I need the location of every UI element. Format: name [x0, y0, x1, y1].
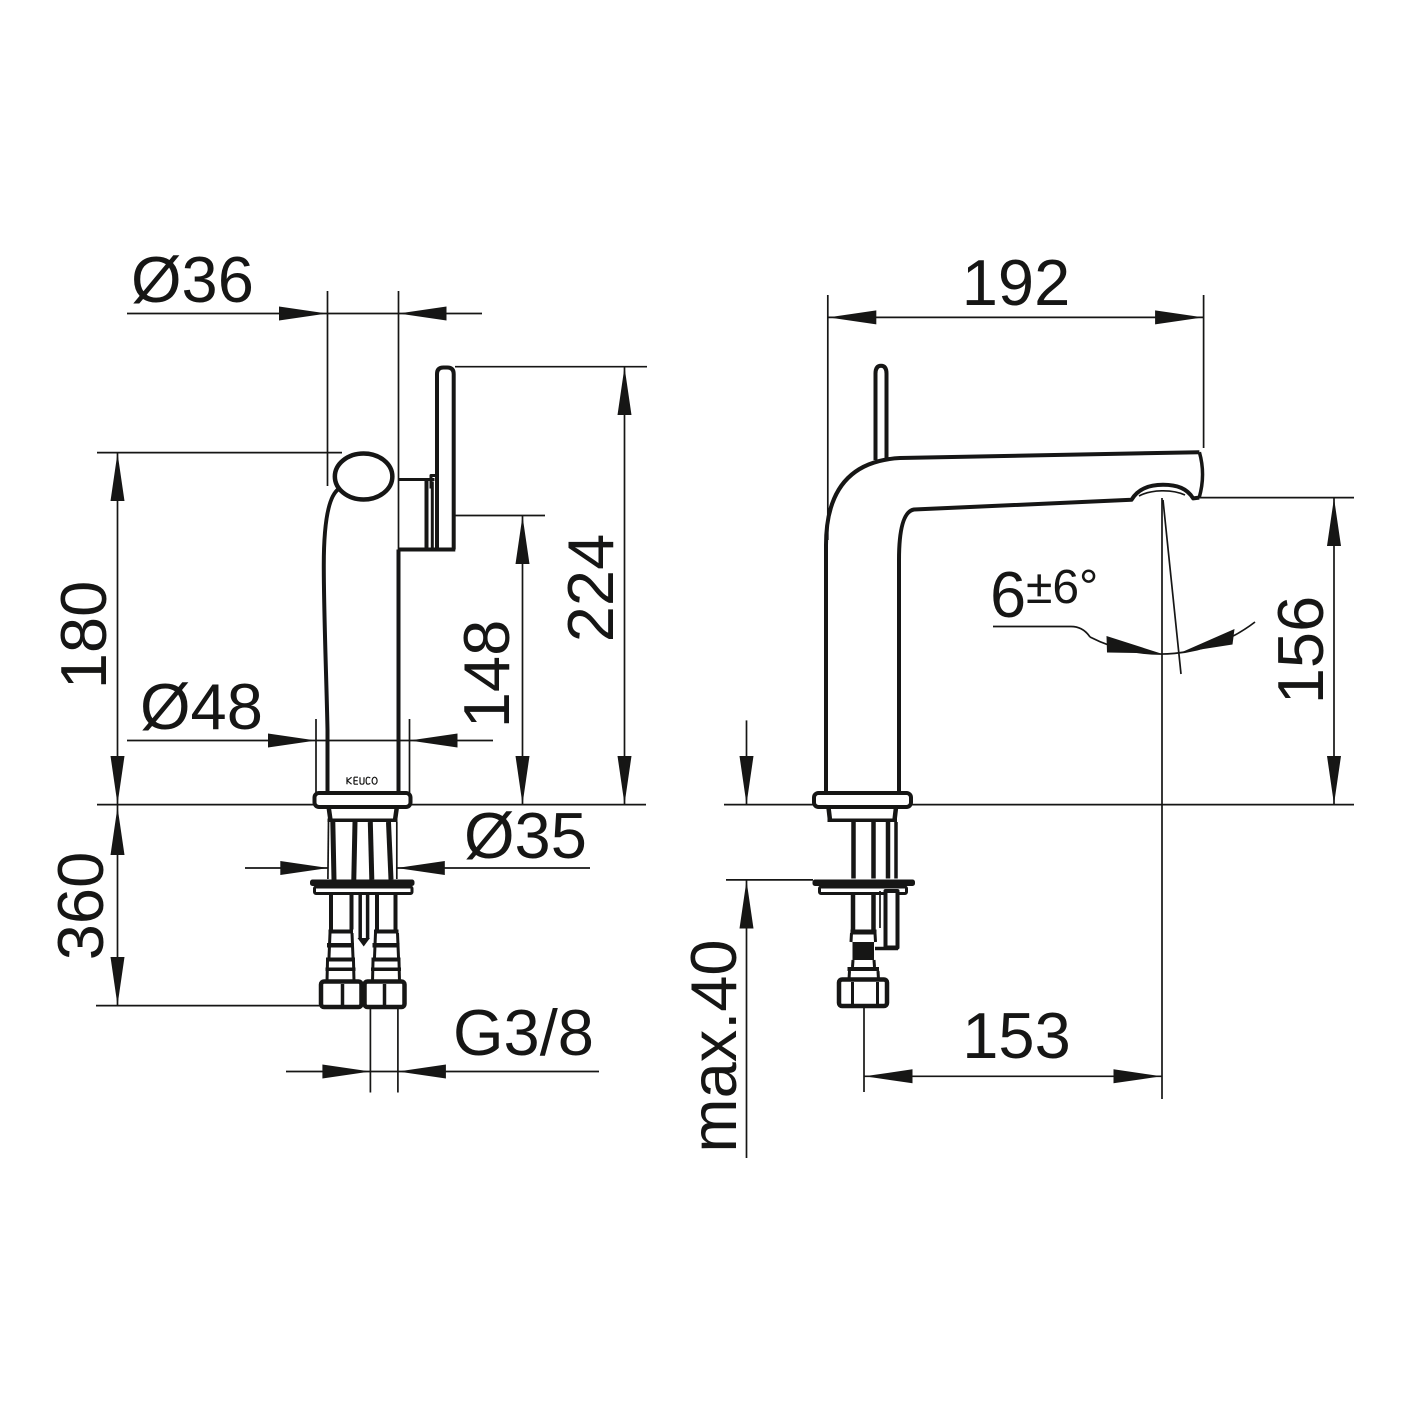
spout bottom edge and aerator — [899, 485, 1199, 794]
supply lines side — [851, 822, 856, 879]
svg-text:192: 192 — [962, 246, 1070, 319]
angle arc — [1090, 622, 1255, 654]
dim line 180-360 — [117, 453, 119, 1006]
dim line D48 — [127, 740, 493, 742]
washer plate front — [310, 880, 415, 887]
angle arrow right — [1181, 629, 1235, 653]
svg-text:Ø35: Ø35 — [464, 799, 587, 872]
arrow 360 up — [111, 807, 125, 855]
arrow 156 down — [1327, 756, 1341, 804]
arrow D35 right — [397, 861, 445, 875]
extension line D48 left — [315, 719, 317, 793]
hose crimp bands side — [848, 930, 880, 972]
svg-text:224: 224 — [554, 534, 627, 642]
hose nut front right — [365, 982, 405, 1008]
angle arrow left — [1107, 636, 1162, 654]
max40 dim line bottom — [746, 881, 748, 1159]
shaft trapezoid side — [829, 808, 897, 821]
dim line G3/8 — [286, 1071, 599, 1073]
svg-text:max.40: max.40 — [677, 939, 750, 1152]
extension line G3/8 left — [369, 1008, 371, 1093]
svg-text:148: 148 — [450, 620, 523, 728]
water stream vertical reference — [1161, 498, 1163, 1099]
dim line D36 — [127, 313, 482, 315]
dim line 156 — [1333, 498, 1335, 805]
bottom line 360 — [96, 1005, 320, 1007]
hose nut front left — [321, 982, 362, 1008]
extension line 156 top — [1195, 497, 1354, 499]
aerator inner line — [1139, 491, 1185, 496]
arrow 360 down — [111, 957, 125, 1005]
svg-text:153: 153 — [962, 999, 1070, 1072]
dim line 192 — [828, 316, 1204, 318]
flange side — [814, 793, 911, 807]
max40 tick line — [726, 879, 813, 881]
arrow 224 up — [618, 367, 632, 415]
arrow D35 left — [280, 861, 328, 875]
hose crimps front — [326, 930, 402, 972]
arrow 148 down — [516, 756, 530, 804]
leader 6deg — [993, 627, 1090, 638]
arrow 192 right — [1155, 310, 1203, 324]
svg-text:±6°: ±6° — [1026, 561, 1098, 614]
washer side — [813, 880, 916, 887]
svg-text:6: 6 — [990, 558, 1026, 631]
lever bar front — [437, 368, 454, 550]
hose below washer side — [853, 894, 874, 930]
crimp side edges front right hose — [375, 933, 399, 958]
arrow 180 down — [111, 756, 125, 804]
svg-text:Ø48: Ø48 — [140, 670, 263, 743]
hoses below washer front — [331, 894, 352, 930]
dim line 148 — [522, 516, 524, 805]
mounting surface line left view — [97, 804, 646, 806]
extension line 224 top — [455, 366, 647, 368]
lever side — [876, 366, 887, 460]
supply bundle lines front — [327, 822, 330, 879]
arrow max40 up — [740, 881, 754, 929]
extension line 153 left — [863, 1008, 865, 1092]
extension line D36 left — [327, 291, 329, 486]
arrow D36 left — [279, 307, 327, 321]
lever mount plate — [399, 478, 435, 481]
svg-text:Ø36: Ø36 — [131, 243, 254, 316]
extension line D48 right — [409, 719, 411, 793]
pivot ellipse — [335, 454, 393, 500]
extension line D36 right — [398, 291, 400, 480]
arrow 153 left — [865, 1069, 913, 1083]
dim line 153 — [864, 1075, 1162, 1077]
extension line G3/8 right — [397, 1008, 399, 1093]
extension line 192 right — [1203, 295, 1205, 448]
dim line 224 — [624, 367, 626, 805]
arrow 192 left — [828, 310, 876, 324]
arrow D48 left — [268, 734, 316, 748]
extension line 180 — [97, 452, 342, 454]
faucet body front: left edge — [324, 489, 339, 794]
rod side — [879, 891, 881, 928]
spout end cap — [1199, 452, 1202, 497]
lever notch — [431, 476, 437, 489]
svg-text:156: 156 — [1264, 596, 1337, 704]
arrow 153 right — [1114, 1069, 1162, 1083]
arrow D36 right — [399, 307, 447, 321]
shaft trapezoid front — [329, 808, 397, 821]
arrow max40 down — [740, 756, 754, 804]
crimp side edges front left hose — [329, 933, 353, 958]
spout outline side — [826, 452, 1199, 793]
arrow 224 down — [618, 756, 632, 804]
arrow 180 up — [111, 453, 125, 501]
extension line 192 left — [827, 295, 829, 540]
KEUCO logo — [347, 777, 377, 784]
arrow G3/8 left — [322, 1065, 370, 1079]
dim line D35 — [245, 867, 590, 869]
hose nut side — [839, 980, 887, 1007]
mounting surface line right view — [724, 804, 1354, 806]
svg-text:180: 180 — [47, 581, 120, 689]
faucet body front: right edge — [398, 480, 400, 550]
arrow 148 up — [516, 516, 530, 564]
svg-text:360: 360 — [44, 852, 117, 960]
crimp side edges side view — [851, 933, 876, 942]
max.40 dim line top — [746, 720, 748, 804]
threaded stud front — [360, 894, 367, 938]
svg-text:G3/8: G3/8 — [453, 996, 594, 1069]
base flange front — [315, 793, 411, 807]
arrow D48 right — [410, 734, 458, 748]
water stream 6deg line — [1163, 500, 1181, 674]
arrow G3/8 right — [398, 1065, 446, 1079]
arrow 156 up — [1327, 498, 1341, 546]
extension line 148 — [455, 515, 545, 517]
